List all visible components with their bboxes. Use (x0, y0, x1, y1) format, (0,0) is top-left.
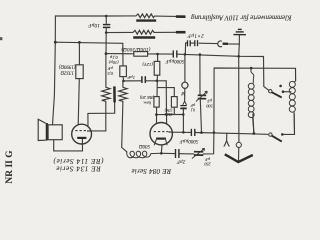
capacitor C1 10uF plates (103, 25, 110, 28)
svg-text:5000µµF: 5000µµF (164, 58, 184, 63)
valve V2 grid dashes (154, 131, 169, 133)
switch S2 lower pivot (269, 133, 272, 136)
wire earth fork stem (224, 133, 229, 146)
wire speaker drop (53, 42, 56, 125)
valve V2 filament bar (156, 138, 166, 140)
wire caps left corner (185, 43, 187, 54)
label grid cap value (190, 103, 195, 112)
svg-text:µF: µF (205, 157, 210, 162)
coupling capacitor C6 plates (191, 129, 194, 136)
capacitor C5 1uF plates (142, 76, 145, 83)
wire zigzag R3 top lead (105, 54, 107, 88)
hf choke L3 500ohm (127, 151, 162, 158)
label C8 value (203, 157, 210, 167)
coil L1 rings (248, 83, 254, 117)
jack plug P1 socket arc (218, 41, 222, 47)
label trimmer value (205, 99, 212, 109)
rheostat R3 zigzag (102, 87, 110, 101)
wire grid cap to anode bus (182, 109, 184, 132)
valve V1 grid dashes (75, 130, 86, 132)
wire zigzag2 to terminal (154, 31, 176, 33)
coil L1 lead top (251, 68, 254, 83)
capacitor C7 2uF plates (176, 149, 179, 158)
svg-text:2µF: 2µF (176, 159, 185, 164)
wire jack to caps (199, 42, 217, 44)
ground symbol (233, 29, 246, 34)
label valve2 type note (139, 95, 154, 105)
wire ground stem (238, 35, 240, 44)
svg-text:500Ω: 500Ω (139, 143, 151, 148)
cell bar (113, 86, 116, 102)
svg-text:µF: µF (107, 66, 113, 71)
wire grid rail y114 (156, 114, 183, 116)
rheostat R4 zigzag (119, 87, 127, 101)
svg-text:(1M): (1M) (164, 108, 172, 112)
svg-text:µF: µF (190, 103, 195, 107)
wire grid long vertical (165, 81, 167, 124)
choke R5 zigzag (136, 14, 155, 18)
svg-text:(100Ω/300Ω): (100Ω/300Ω) (121, 46, 150, 51)
wire lower rail to corner (203, 68, 295, 154)
variable capacitor C8 arrow (192, 148, 205, 158)
jack plug P1 pin (223, 43, 228, 45)
coil L1 lead bottom (253, 117, 254, 133)
wire phone jack feed (184, 54, 186, 82)
wire switch upper contact lead (283, 91, 291, 93)
wire lower rail left (161, 152, 174, 154)
wire zigzag1 to terminal (155, 15, 176, 17)
wire coil L1 bottom lead (253, 114, 254, 133)
coil L2 lead bottom (293, 112, 296, 134)
antenna vee (225, 154, 253, 162)
wire switch upper feed (264, 57, 269, 91)
wire cap C1 stub top (105, 16, 107, 24)
choke R6 core bar (133, 36, 155, 38)
svg-text:(12V): (12V) (142, 62, 153, 67)
wire y80 rail right (146, 80, 166, 82)
svg-text:1µF: 1µF (127, 75, 135, 80)
svg-text:µF: µF (207, 99, 212, 104)
wire resistor R1 drop (78, 42, 80, 64)
coil L2 lead top (294, 68, 295, 82)
wire valve2 cathode lead (160, 145, 163, 153)
wire caps mid link (191, 42, 195, 44)
wire trimmer to anode bus (200, 99, 201, 132)
wire coil L2 bottom lead (283, 113, 294, 134)
label R1 value (59, 64, 76, 75)
switch S2 lower blade (272, 136, 282, 142)
valve V1 anode lead (87, 130, 92, 132)
wire zigzag R3 bottom to anode (92, 101, 106, 131)
resistor R2 100ohm box (134, 52, 148, 57)
switch S1 upper blade (272, 92, 282, 97)
wire bus left (106, 53, 134, 55)
valve V2 filament legs (154, 139, 167, 145)
speaker diaphragm bar (46, 123, 48, 140)
svg-text:(RE 20): (RE 20) (139, 95, 154, 100)
valve V2 envelope (150, 123, 172, 145)
wire lower rail mid (180, 153, 194, 155)
wire top rail (55, 15, 136, 17)
svg-text:M: M (180, 90, 186, 95)
valve V1 envelope (72, 124, 92, 144)
grid capacitor plates (180, 106, 186, 109)
antenna circle (236, 142, 241, 147)
resistor box B (154, 97, 159, 108)
coil L2 rings (289, 81, 295, 112)
label C4 upper value (108, 54, 118, 65)
wire box B to valve 2 (156, 107, 158, 123)
wire bus mid (148, 53, 173, 55)
wire bus link (105, 33, 107, 54)
capacitor C2 500pF plates (173, 50, 177, 57)
speaker cone (38, 119, 46, 140)
variable capacitor C8 plates (194, 152, 203, 155)
svg-text:10µF: 10µF (87, 22, 99, 28)
switch S1 upper pivot (269, 90, 272, 93)
phone jack circle (182, 82, 188, 88)
label RE 134 Serie (53, 157, 104, 173)
wire R1 to valve (78, 79, 79, 125)
svg-text:RE 084 Serie: RE 084 Serie (131, 167, 172, 175)
wire valve1 centre leg (81, 139, 83, 151)
trimmer arrow (196, 91, 207, 101)
capacitor box C4 (120, 66, 127, 77)
wire box A to box B (156, 75, 158, 96)
scan edge mark (0, 37, 2, 40)
label grid leak value (164, 108, 172, 116)
wire anode bus right (196, 133, 268, 135)
resistor R1 1332ohm box (76, 65, 83, 79)
capacitor C3 2x1uF plates (188, 40, 198, 46)
wire ground to jack (228, 43, 240, 45)
wire box cap feed (122, 43, 124, 66)
choke R6 zigzag (133, 30, 154, 34)
wire zigzag R4 bottom lead (122, 101, 127, 152)
valve V1 filament bar (77, 137, 86, 139)
svg-text:(1990Ω): (1990Ω) (59, 64, 76, 69)
wire antenna long vertical (238, 56, 240, 142)
svg-text:Klemmenwerte für 110V Ausführu: Klemmenwerte für 110V Ausführung (191, 13, 293, 20)
terminal K1 (176, 15, 186, 18)
grid leak resistor box (171, 97, 177, 108)
wire resistor box A feed (157, 54, 159, 61)
wire bus right (178, 54, 264, 56)
wire left vertical (54, 16, 56, 42)
wire antenna stem (238, 148, 240, 161)
wire y42 rail (55, 42, 123, 43)
wire trimmer feed (199, 55, 201, 95)
wire mid rail (106, 31, 133, 33)
svg-text:NR II G: NR II G (5, 150, 15, 183)
wire zigzag R4 top lead (122, 81, 124, 87)
trimmer capacitor plates (198, 95, 207, 98)
svg-text:5000µµF: 5000µµF (179, 138, 199, 143)
wire box cap lower lead (122, 77, 124, 81)
label C4 lower value (107, 66, 113, 76)
wire speaker bottom (54, 140, 83, 151)
svg-text:2×1µF: 2×1µF (187, 32, 204, 38)
speaker box (48, 125, 62, 140)
choke R5 core bar (136, 19, 156, 21)
svg-text:(RE 114 Serie): (RE 114 Serie) (53, 157, 104, 165)
wire anode bus left (173, 131, 191, 133)
wire grid leak branch (157, 88, 174, 97)
resistor box A (154, 61, 160, 75)
wire ground down to bus (238, 44, 241, 56)
wire cell bottom lead (88, 102, 115, 126)
terminal K2 (176, 31, 186, 34)
wire y80 rail left (124, 80, 142, 82)
grid cap clamp fork (183, 101, 187, 105)
svg-text:1332Ω: 1332Ω (60, 70, 74, 75)
valve V2 anode lead (169, 131, 173, 133)
wire cap C1 stub bottom (105, 28, 107, 33)
wire grid leak lower lead (173, 107, 175, 114)
wire grid cap feed (184, 89, 186, 102)
